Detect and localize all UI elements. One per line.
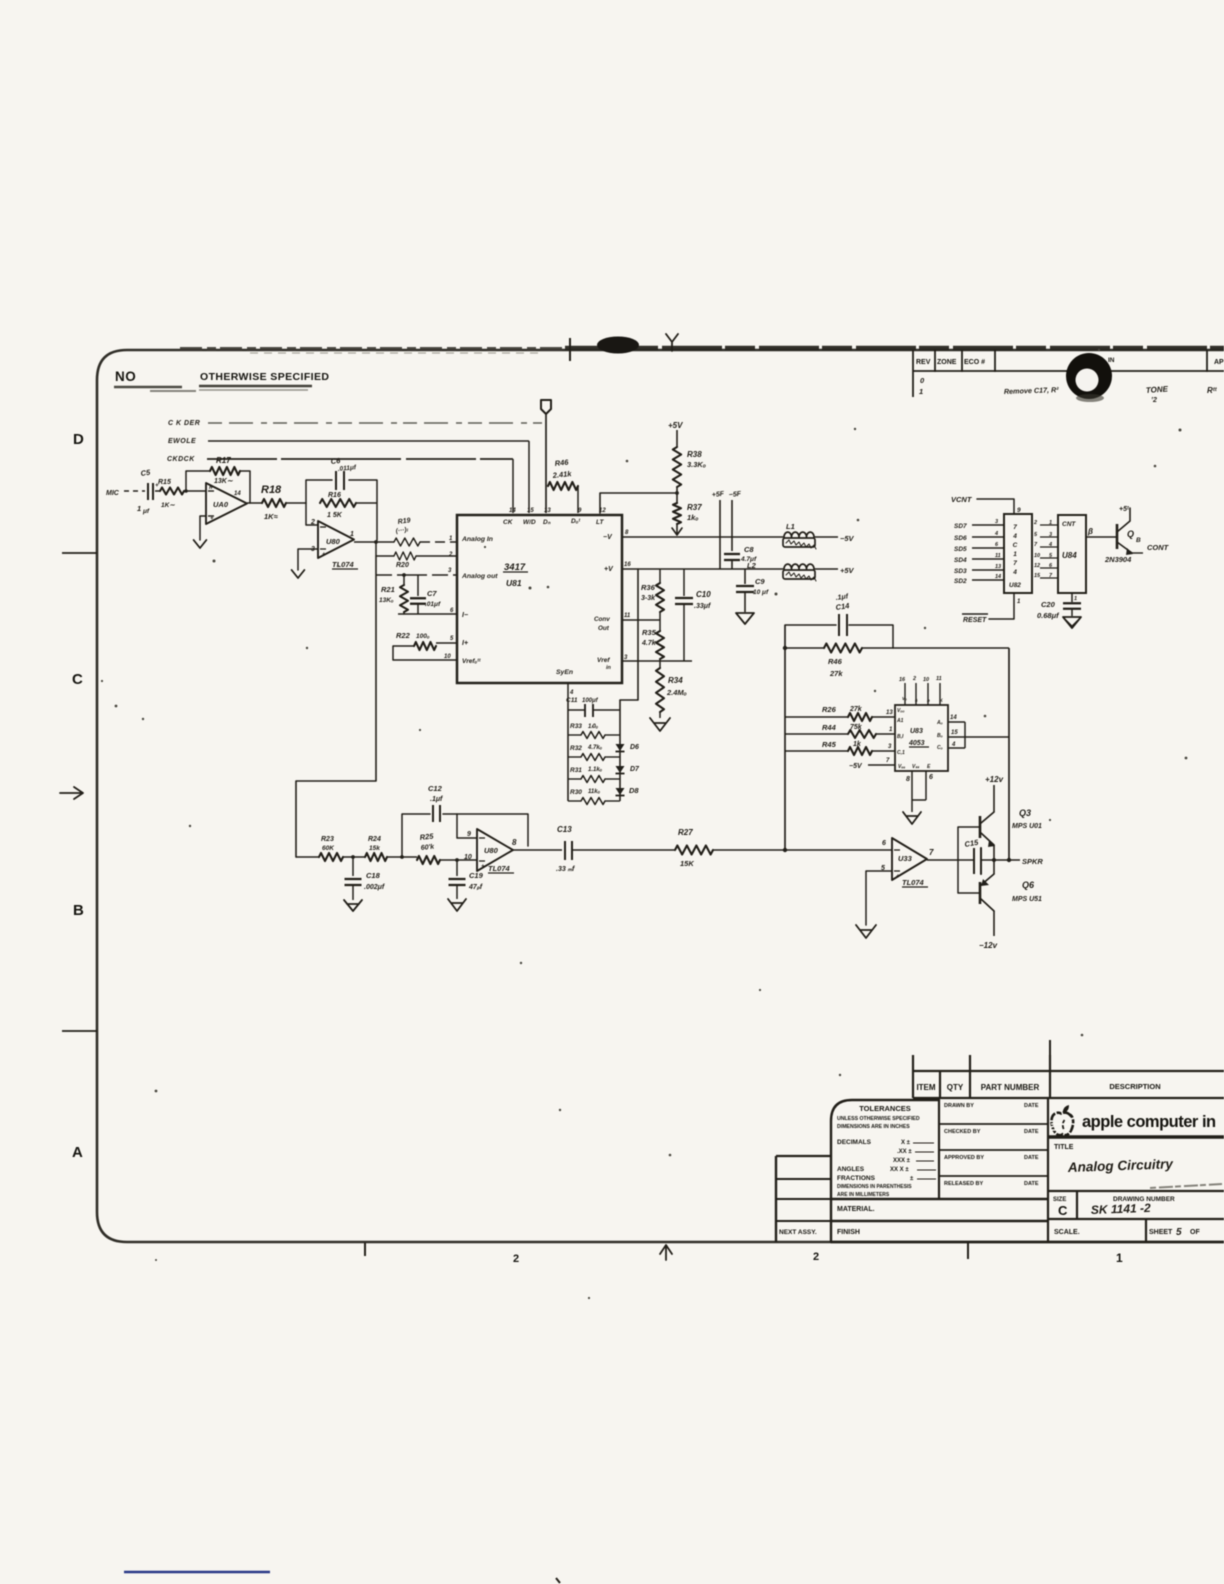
resistor R46 [548,458,578,490]
left edge center arrow marker [60,787,83,799]
svg-text:C15: C15 [964,838,980,849]
svg-text:10: 10 [464,854,472,861]
svg-text:R15: R15 [158,479,171,486]
node R20 branch [374,540,378,544]
resistor R37 [673,503,702,524]
svg-text:6: 6 [882,840,886,847]
svg-text:SD4: SD4 [954,557,967,564]
svg-text:U33: U33 [898,854,913,863]
node2 junction [387,856,417,858]
resistor R20 [376,552,457,569]
svg-text:4: 4 [994,531,998,537]
svg-text:Analog Circuitry: Analog Circuitry [1067,1156,1175,1175]
left edge zone tick 2 [62,1030,97,1032]
wire -V line [622,536,784,538]
svg-text:b: b [927,698,930,703]
REV table grid [913,350,1224,397]
ground triangle C9 [736,613,754,624]
svg-text:.XX ±: .XX ± [897,1149,912,1155]
capacitor C18 [345,857,385,900]
svg-text:C12: C12 [428,784,443,793]
svg-text:R32: R32 [570,745,582,752]
svg-text:R46: R46 [828,657,843,666]
svg-text:7: 7 [886,758,890,764]
svg-text:CHECKED BY: CHECKED BY [944,1129,981,1135]
svg-text:R19: R19 [397,517,411,526]
svg-text:2: 2 [513,1253,519,1265]
svg-text:2: 2 [813,1251,819,1263]
C15 base bracket [958,827,980,893]
svg-text:4: 4 [569,690,574,696]
svg-text:X ±: X ± [901,1140,911,1146]
capacitor C5 [137,468,160,515]
svg-text:L1: L1 [786,522,795,531]
svg-text:R35: R35 [642,628,657,637]
svg-text:R20: R20 [396,562,409,569]
svg-text:75k: 75k [850,724,863,731]
svg-text:R38: R38 [687,450,702,459]
svg-text:1: 1 [1074,596,1077,602]
arrow R37 bottom [672,524,682,535]
svg-text:R24: R24 [368,836,381,843]
svg-text:7: 7 [1013,560,1017,567]
resistor R25 [417,832,477,864]
svg-text:3: 3 [995,519,998,525]
svg-text:1K≈: 1K≈ [264,512,279,521]
svg-text:D8: D8 [629,786,639,795]
scan specks [101,349,1188,1299]
wire R46 to pin 9 [577,486,579,513]
svg-text:8: 8 [512,838,517,847]
U83 top pin stubs [899,676,943,705]
svg-text:1: 1 [1116,1251,1123,1265]
svg-text:VCNT: VCNT [951,495,973,504]
svg-text:TL074: TL074 [488,864,511,873]
wire R22 loop to Vref out pin 10 [393,646,457,660]
svg-text:2: 2 [310,519,315,526]
svg-text:9: 9 [467,831,471,838]
svg-text:C: C [1058,1203,1068,1218]
bottom edge arrow marker [660,1245,672,1260]
svg-text:D6: D6 [630,744,639,751]
node mic junction [184,490,206,492]
ground arrow C19 [448,899,466,911]
node R38 R37 junction [676,487,678,503]
svg-text:1K∼: 1K∼ [161,502,175,509]
wire R18 to U80 stage [286,502,306,504]
svg-text:W/D: W/D [523,519,536,526]
resistor R15 [158,479,184,509]
svg-text:in: in [606,665,612,671]
top border heavy scan band [180,337,1224,354]
svg-text:Aₒ: Aₒ [936,720,943,726]
svg-text:ʎ: ʎ [939,698,943,703]
svg-text:ʽ2: ʽ2 [1151,397,1157,404]
capacitor C10 [675,569,711,661]
svg-text:+12v: +12v [985,775,1004,784]
svg-text:+5ᵗ: +5ᵗ [1119,506,1129,513]
svg-text:12: 12 [1034,563,1040,569]
wire long vertical to filter [296,556,376,857]
svg-text:R33: R33 [570,723,582,730]
node rail C14 [783,646,787,650]
svg-text:13: 13 [995,564,1001,570]
svg-text:DATE: DATE [1024,1155,1039,1161]
svg-text:QTY: QTY [947,1083,964,1092]
ladder right rail [619,700,621,801]
svg-text:3.3Kₒ: 3.3Kₒ [687,460,706,469]
svg-text:11: 11 [624,613,631,619]
svg-text:+5F: +5F [711,491,725,499]
svg-text:XXX ±: XXX ± [893,1158,911,1164]
svg-text:apple computer in: apple computer in [1082,1113,1216,1131]
resistor R32 [568,745,620,761]
svg-text:R36: R36 [641,583,656,592]
svg-text:10: 10 [1034,553,1040,559]
svg-text:1: 1 [1049,520,1052,526]
ground arrow U83 [903,812,921,824]
pin SyEn stub [567,683,569,703]
capacitor C7 [410,575,441,614]
svg-text:±: ± [910,1176,914,1182]
svg-text:4.7kₒ: 4.7kₒ [587,745,603,751]
svg-text:11: 11 [995,553,1001,559]
svg-text:SD5: SD5 [954,546,967,553]
svg-text:9: 9 [1017,507,1021,514]
capacitor C19 [449,860,484,899]
svg-text:A1: A1 [896,718,904,724]
svg-text:NEXT ASSY.: NEXT ASSY. [779,1229,817,1236]
node C18 junction [343,856,365,858]
svg-text:1ₗ0ₒ: 1ₗ0ₒ [588,724,599,730]
svg-text:DIMENSIONS ARE IN INCHES: DIMENSIONS ARE IN INCHES [837,1124,910,1130]
resistor R16 [320,492,377,519]
svg-text:DATE: DATE [1024,1181,1039,1187]
svg-text:Vₛₛ: Vₛₛ [912,764,920,770]
resistor R36 column [641,569,664,620]
svg-text:CK: CK [503,519,514,526]
svg-text:+: + [481,864,485,870]
svg-text:2.4Mₒ: 2.4Mₒ [666,688,687,697]
note NO underline [114,386,182,389]
svg-text:CONT: CONT [1147,543,1170,552]
svg-text:R16: R16 [328,492,341,499]
svg-text:TL074: TL074 [332,560,355,569]
svg-text:ANGLES: ANGLES [837,1166,865,1173]
ground arrow R34 [650,718,670,731]
svg-text:8: 8 [906,776,910,783]
svg-text:100ₒ: 100ₒ [416,633,430,640]
svg-text:60'k: 60'k [420,844,435,852]
resistor R34 [656,661,687,718]
svg-text:U84: U84 [1062,551,1077,560]
svg-text:C6: C6 [330,456,341,466]
svg-text:.33μf: .33μf [694,603,711,610]
svg-text:C8: C8 [744,545,754,554]
svg-text:13K∼: 13K∼ [214,478,234,485]
svg-text:R34: R34 [668,676,683,685]
wire +V rail vertical to ladder [620,569,638,700]
svg-text:(···)ₗ: (···)ₗ [395,526,409,535]
wire R27 to U33 [713,849,892,851]
tolerances text [837,1104,936,1198]
svg-text:1: 1 [350,531,354,538]
svg-text:.002μf: .002μf [364,884,385,891]
wire U80b output [513,849,562,851]
svg-text:SD7: SD7 [954,523,967,530]
bottom edge tick right [967,1243,969,1259]
svg-text:SCALE.: SCALE. [1054,1229,1080,1236]
left edge zone tick 1 [62,552,97,554]
resistor R22 [393,631,457,650]
apple logo cell [1048,1135,1224,1139]
wire CKDCK drop to U81 pin 14 [512,459,514,513]
resistor R45 row [785,740,895,755]
wire +5F rail [719,500,721,569]
svg-text:1: 1 [449,536,453,542]
svg-text:R17: R17 [216,456,231,465]
item row labels [916,1082,1160,1092]
svg-text:5: 5 [450,636,454,642]
svg-text:−5V: −5V [849,763,863,770]
wire Conv Out pin 11 [622,619,660,621]
wire LT pin 12 up [600,493,676,513]
svg-text:100μf: 100μf [582,698,599,704]
svg-text:3: 3 [888,744,892,750]
svg-text:15: 15 [527,508,534,514]
svg-text:15k: 15k [369,845,380,852]
svg-text:Analog In: Analog In [461,536,493,543]
svg-text:R46: R46 [554,458,569,468]
svg-text:AP: AP [1214,359,1224,366]
svg-text:R31: R31 [570,767,582,774]
transistor Q 2N3904 [1104,506,1143,564]
capacitor C20 [1037,593,1081,620]
svg-text:4.7k: 4.7k [641,640,657,647]
wire VCNT [977,499,1014,514]
svg-text:6: 6 [450,608,454,614]
svg-text:6: 6 [929,774,933,781]
REV header text [916,359,1224,366]
resistor R27 [675,828,713,868]
svg-text:TONE: TONE [1146,384,1169,395]
svg-text:Bₒ: Bₒ [937,733,943,739]
capacitor C6 [330,456,357,490]
svg-text:CNT: CNT [1062,521,1076,528]
next assy column [776,1156,831,1242]
resistor R26 row [785,705,895,721]
blue pen line bottom left [124,1571,270,1574]
svg-text:27k: 27k [849,706,863,713]
svg-text:SK 1141 -2: SK 1141 -2 [1091,1201,1152,1217]
signature column grid [939,1098,1048,1242]
ground arrow C18 [344,900,362,911]
svg-text:−5F: −5F [728,491,742,499]
svg-text:UNLESS OTHERWISE SPECIFIED: UNLESS OTHERWISE SPECIFIED [837,1116,920,1122]
title block item row grid [913,1055,1224,1098]
svg-text:4: 4 [951,742,956,748]
svg-text:Remove C17, R²: Remove C17, R² [1004,385,1060,396]
ground arrow U80 pin3 [292,549,318,578]
svg-text:C11: C11 [566,697,578,704]
svg-text:4053: 4053 [908,740,925,747]
capacitor C11 [566,697,620,717]
svg-text:PART NUMBER: PART NUMBER [981,1083,1040,1092]
transistor Q3 [980,808,1042,860]
svg-text:1kₒ: 1kₒ [687,513,699,522]
capacitor C12 [428,784,443,822]
svg-text:15: 15 [951,730,958,736]
wire CKDCK [207,458,513,460]
resistor R18 [261,484,286,521]
size drawing number row [1048,1184,1224,1219]
svg-text:+: + [210,516,214,522]
diode D6 [616,744,640,752]
svg-text:I−: I− [462,612,468,619]
node C19 junction [455,858,459,862]
wire L1 to -5V [814,536,838,538]
svg-text:5: 5 [1034,532,1038,538]
U83 bottom stubs [906,771,933,812]
wire R17 feedback loop [186,471,250,503]
svg-text:−V: −V [603,534,613,541]
op-amp UA0 [206,483,247,524]
IC U82 body [1004,514,1032,593]
svg-text:4: 4 [1048,542,1052,548]
wire filter input [296,856,319,858]
scale sheet row [1054,1219,1200,1242]
svg-text:−5V: −5V [840,534,855,543]
svg-text:4: 4 [1012,533,1017,540]
svg-text:B,I: B,I [897,734,904,740]
svg-text:15K: 15K [680,859,694,868]
IC U83 body [895,705,948,771]
svg-text:C: C [72,671,83,688]
ECO note tone [1146,384,1169,404]
wire -5F rail [731,500,733,551]
svg-text:C9: C9 [755,577,765,586]
bottom stray mark [556,1578,560,1583]
svg-text:R25: R25 [419,832,434,842]
svg-text:10: 10 [444,654,451,660]
op-amp U80 [310,519,358,569]
svg-text:10 μf: 10 μf [753,589,769,596]
svg-text:Conv: Conv [594,616,610,623]
svg-text:DIMENSIONS IN PARENTHESIS: DIMENSIONS IN PARENTHESIS [837,1184,912,1190]
resistor R31 [568,767,620,783]
svg-text:OF: OF [1190,1229,1200,1236]
U82 to U84 wires [1033,520,1058,579]
svg-text:SHEET: SHEET [1149,1229,1173,1236]
svg-text:U81: U81 [506,578,522,588]
wire Vref in pin 3 [622,660,692,662]
svg-text:ARE IN MILLIMETERS: ARE IN MILLIMETERS [837,1192,890,1198]
svg-text:1: 1 [137,504,141,513]
svg-text:16: 16 [899,677,906,683]
wire C13 to R27 [572,849,675,851]
svg-text:Vₑₑ: Vₑₑ [898,764,905,770]
svg-text:C10: C10 [696,590,711,599]
svg-text:6: 6 [995,542,999,548]
wire R21 C7 bottom to pin 6 [404,612,457,614]
svg-text:R26: R26 [822,705,837,714]
svg-text:EWOLE: EWOLE [168,438,196,445]
svg-text:SyEn: SyEn [556,669,573,676]
svg-text:1: 1 [1013,551,1017,558]
wire C15 to SPKR [981,859,1020,861]
resistor R30 [568,789,620,805]
svg-text:3: 3 [624,655,628,661]
wire right rail down [1008,648,1010,860]
svg-text:Q: Q [1127,529,1134,539]
svg-text:C19: C19 [469,871,484,880]
svg-text:NO: NO [115,369,136,384]
svg-text:Vrefₒᵗᵗ: Vrefₒᵗᵗ [462,658,481,665]
svg-text:47ₚf: 47ₚf [468,884,483,891]
svg-text:13Kₒ: 13Kₒ [379,597,394,604]
feedback loop C12 [402,814,528,857]
svg-text:APPROVED BY: APPROVED BY [944,1155,984,1161]
svg-text:RELEASED BY: RELEASED BY [944,1181,983,1187]
svg-text:Rᵗᵗ: Rᵗᵗ [1207,386,1218,395]
svg-text:D: D [73,431,84,448]
IC U84 body [1058,515,1086,593]
U82 input wires [954,519,1004,585]
svg-text:FINISH: FINISH [837,1229,860,1236]
svg-text:MPS U51: MPS U51 [1012,896,1042,903]
resistor R23 [319,836,343,861]
svg-text:+: + [322,552,326,558]
svg-text:MATERIAL.: MATERIAL. [837,1206,875,1213]
svg-text:2N3904: 2N3904 [1104,555,1132,564]
IC U81 body [457,515,622,683]
svg-text:Q3: Q3 [1019,808,1031,818]
svg-text:DATE: DATE [1024,1103,1039,1109]
svg-text:C7: C7 [427,589,437,598]
resistor R44 row [785,723,895,738]
svg-text:IN: IN [1108,357,1115,364]
svg-text:14: 14 [234,491,241,497]
svg-text:β: β [1087,527,1093,536]
svg-text:XX X ±: XX X ± [890,1167,909,1173]
svg-text:0: 0 [920,376,925,385]
svg-text:R45: R45 [822,740,837,749]
svg-text:1: 1 [919,387,923,396]
wire UA0 output [247,502,262,504]
svg-text:3: 3 [1049,532,1052,538]
svg-text:1 5K: 1 5K [327,512,343,519]
wire down from output node [375,542,377,556]
svg-text:LT: LT [596,519,604,526]
svg-text:MPS U01: MPS U01 [1012,823,1042,830]
ladder left rail [567,703,569,801]
ground arrow UA0 [194,516,207,548]
tolerances box outline [831,1100,1224,1242]
op-amp U33 [881,838,934,887]
svg-text:C: C [1013,542,1018,549]
wire into pin 2 [306,503,318,525]
svg-text:7: 7 [1034,542,1038,548]
top edge tick mark [569,338,571,361]
svg-text:4.7μf: 4.7μf [740,556,757,563]
svg-text:.01μf: .01μf [425,601,441,608]
inductor L1 [783,522,816,549]
svg-text:U83: U83 [910,728,923,735]
feedback top loop C14 [785,625,893,648]
svg-text:Analog out: Analog out [461,573,498,580]
wire U84 output B [1086,536,1117,538]
capacitor C8 [724,545,757,569]
